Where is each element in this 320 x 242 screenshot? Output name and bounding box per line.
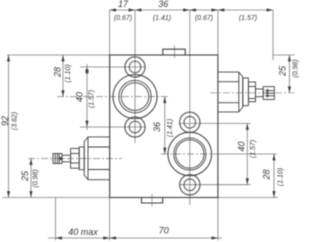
- svg-text:25: 25: [277, 65, 287, 77]
- svg-text:(1.57): (1.57): [250, 140, 257, 158]
- svg-text:(1.57): (1.57): [89, 90, 96, 108]
- svg-text:(0.67): (0.67): [195, 15, 213, 22]
- svg-text:70: 70: [159, 226, 169, 236]
- svg-text:17: 17: [118, 0, 129, 9]
- svg-text:(1.10): (1.10): [277, 168, 284, 186]
- svg-text:40 max: 40 max: [68, 227, 98, 237]
- svg-text:40: 40: [75, 92, 85, 102]
- svg-text:(1.41): (1.41): [167, 119, 174, 137]
- svg-text:(3.62): (3.62): [12, 112, 19, 130]
- svg-text:(1.10): (1.10): [65, 64, 72, 82]
- svg-text:25: 25: [20, 170, 30, 182]
- svg-text:40: 40: [237, 141, 247, 151]
- svg-text:36: 36: [152, 122, 162, 132]
- svg-text:(0.98): (0.98): [33, 169, 40, 187]
- svg-text:(0.67): (0.67): [114, 15, 132, 22]
- svg-text:92: 92: [0, 116, 10, 126]
- svg-text:28: 28: [262, 169, 272, 180]
- svg-text:(1.57): (1.57): [239, 15, 257, 22]
- svg-text:28: 28: [52, 67, 62, 78]
- svg-text:(1.41): (1.41): [153, 15, 171, 22]
- svg-text:(0.98): (0.98): [293, 59, 300, 77]
- svg-text:36: 36: [158, 0, 168, 9]
